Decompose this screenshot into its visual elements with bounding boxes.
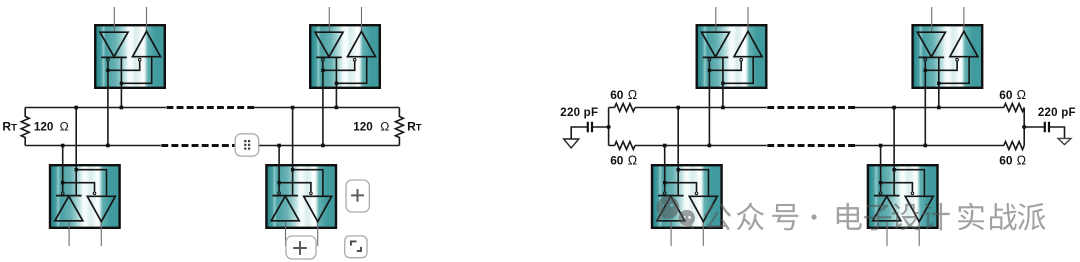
wire U3 pin A to bottom bus (61, 144, 65, 164)
transceiver U5 (697, 7, 767, 89)
resistor R4 60 Ohm bottom right (1004, 142, 1024, 150)
wire bus A (left circuit top line) (25, 107, 166, 109)
wire U4 pin A to bottom bus (277, 144, 281, 164)
wire bus A dashed cable segment right (767, 106, 855, 109)
wire bus B mid (635, 145, 767, 147)
wire bus A dashed cable segment (167, 106, 255, 109)
wire U2 pin A to bottom bus (321, 89, 325, 147)
resistor RT 120 Ohm right termination (395, 108, 403, 146)
transceiver U7 (inverted) (652, 164, 722, 246)
svg-text:Ω: Ω (1017, 88, 1026, 102)
wire U2 pin B to top bus (335, 89, 339, 109)
wire U7 pin A to bottom bus (663, 144, 667, 164)
transceiver U1 (95, 7, 165, 89)
drag handle button (235, 134, 259, 156)
svg-text:Ω: Ω (628, 88, 637, 102)
wire U5 pin B to top bus (721, 89, 725, 109)
wire U3 pin B to top bus (74, 106, 78, 164)
wire bus A right solid (855, 107, 1004, 109)
svg-text:120: 120 (353, 121, 373, 134)
transceiver U3 (inverted) (50, 164, 120, 246)
wire bus B (right circuit bottom line) (609, 145, 615, 147)
svg-text:Ω: Ω (380, 120, 389, 134)
wire bus B dashed cable segment right (767, 144, 855, 147)
wire U5 pin A to bottom bus (708, 89, 712, 147)
wire U6 pin A to bottom bus (924, 89, 928, 147)
wire left common vertical node (607, 108, 611, 146)
capacitor C2 220 pF right (1024, 122, 1064, 139)
wire U1 pin A to bottom bus (106, 89, 110, 147)
watermark logo and text (656, 196, 1046, 230)
wire U8 pin A to bottom bus (879, 144, 883, 164)
wire right common vertical node (1022, 108, 1026, 146)
svg-text:Ω: Ω (60, 120, 69, 134)
wire U1 pin B to top bus (120, 89, 124, 109)
wire bus B (left circuit bottom line) (25, 145, 161, 147)
resistor R2 60 Ohm top right (1004, 104, 1024, 112)
transceiver U6 (913, 7, 983, 89)
ground left (564, 139, 579, 148)
transceiver U8 (inverted) (868, 164, 938, 246)
wire bus B right segment (258, 145, 399, 147)
svg-text:RT: RT (407, 120, 422, 134)
ground right (1058, 138, 1071, 144)
plus button below U4 (286, 236, 316, 259)
resistor RT 120 Ohm left termination (21, 108, 29, 146)
resistor R1 60 Ohm top left (615, 104, 635, 112)
plus button right of U4 (346, 180, 369, 212)
svg-text:60: 60 (610, 88, 624, 102)
transceiver U4 (inverted) (266, 164, 336, 246)
expand button (345, 236, 367, 258)
svg-text:60: 60 (999, 153, 1013, 167)
transceiver U2 (310, 7, 380, 89)
wire U8 pin B to top bus (892, 106, 896, 164)
svg-text:220 pF: 220 pF (1038, 107, 1076, 119)
svg-text:60: 60 (999, 88, 1013, 102)
resistor R3 60 Ohm bottom left (615, 142, 635, 150)
wire U4 pin B to top bus (291, 106, 295, 164)
svg-text:Ω: Ω (1017, 153, 1026, 167)
wire bus A right segment (254, 107, 399, 109)
wire bus A (right circuit top line) with 60 Ohm resistors (609, 107, 615, 109)
svg-text:120: 120 (34, 121, 54, 134)
wire U7 pin B to top bus (676, 106, 680, 164)
wire U6 pin B to top bus (937, 89, 941, 109)
svg-text:220 pF: 220 pF (560, 107, 598, 119)
svg-text:60: 60 (610, 153, 624, 167)
capacitor C1 220 pF left (571, 122, 608, 139)
svg-text:RT: RT (2, 120, 17, 134)
svg-text:Ω: Ω (628, 153, 637, 167)
wire bus B right solid (855, 145, 1004, 147)
wire bus A mid (635, 107, 767, 109)
wire bus B dashed cable segment (161, 144, 236, 147)
